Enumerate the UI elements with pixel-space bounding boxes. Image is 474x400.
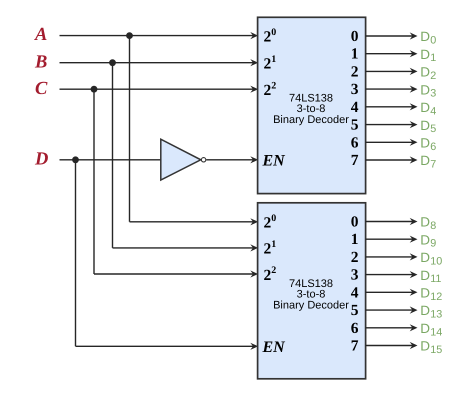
junction node on B	[109, 59, 116, 66]
svg-text:12: 12	[430, 291, 442, 303]
wire U1 output 1 to D1	[366, 50, 418, 57]
svg-text:D: D	[420, 153, 430, 168]
wire D to inverter input	[60, 159, 162, 161]
svg-text:D: D	[420, 250, 430, 265]
svg-text:15: 15	[430, 344, 442, 356]
svg-text:Binary Decoder: Binary Decoder	[273, 114, 349, 126]
output label D7	[420, 153, 436, 170]
output label D3	[420, 82, 436, 99]
U2 value label 74LS138 3-to-8 Binary Decoder	[273, 278, 349, 312]
U1 pin label 2^2	[264, 80, 277, 99]
output label D15	[420, 339, 442, 356]
svg-text:2: 2	[430, 70, 436, 82]
svg-text:7: 7	[430, 159, 436, 171]
wire U2 output 0 to D8	[366, 218, 418, 225]
svg-text:4: 4	[351, 99, 359, 116]
svg-text:D: D	[420, 47, 430, 62]
svg-text:EN: EN	[262, 153, 287, 170]
svg-text:4: 4	[430, 105, 436, 117]
output label D4	[420, 100, 436, 117]
svg-text:D: D	[420, 339, 430, 354]
wire A branch to bottom decoder input 2^0	[130, 36, 259, 226]
wire C to top decoder input 2^2	[60, 86, 259, 93]
wire A to top decoder input 2^0	[60, 32, 259, 39]
wire U1 output 0 to D0	[366, 32, 418, 39]
svg-text:D: D	[420, 303, 430, 318]
svg-text:2: 2	[351, 249, 359, 266]
svg-text:3: 3	[351, 81, 359, 98]
svg-text:0: 0	[271, 27, 276, 38]
wire U1 output 2 to D2	[366, 68, 418, 75]
output label D2	[420, 65, 436, 82]
svg-text:8: 8	[430, 220, 436, 232]
wire U1 output 7 to D7	[366, 156, 418, 163]
inverter (NOT gate) on D	[161, 139, 201, 180]
svg-text:D: D	[420, 321, 430, 336]
svg-text:0: 0	[351, 214, 359, 231]
junction node on D	[72, 156, 79, 163]
svg-text:1: 1	[271, 239, 276, 250]
wire U2 output 6 to D14	[366, 324, 418, 331]
junction node on C	[91, 86, 98, 93]
svg-text:14: 14	[430, 326, 442, 338]
svg-text:1: 1	[351, 46, 359, 63]
output label D5	[420, 118, 436, 135]
wire U1 output 5 to D5	[366, 121, 418, 128]
svg-text:11: 11	[430, 273, 441, 285]
svg-text:Binary Decoder: Binary Decoder	[273, 299, 349, 311]
svg-text:D: D	[420, 82, 430, 97]
output label D0	[420, 29, 436, 46]
svg-text:D: D	[420, 232, 430, 247]
inverter output bubble	[201, 158, 205, 162]
svg-text:D: D	[420, 286, 430, 301]
svg-text:D: D	[420, 100, 430, 115]
wire B branch to bottom decoder input 2^1	[113, 63, 259, 252]
output label D14	[420, 321, 442, 338]
U1 value label 74LS138 3-to-8 Binary Decoder	[273, 92, 349, 126]
svg-text:6: 6	[430, 141, 436, 153]
svg-text:0: 0	[351, 28, 359, 45]
svg-text:1: 1	[271, 54, 276, 65]
svg-text:1: 1	[351, 231, 359, 248]
svg-text:D: D	[420, 65, 430, 80]
svg-text:5: 5	[351, 117, 359, 134]
wire U2 output 5 to D13	[366, 306, 418, 313]
wire U1 output 3 to D3	[366, 86, 418, 93]
svg-text:D: D	[420, 118, 430, 133]
wire U1 output 6 to D6	[366, 139, 418, 146]
svg-text:3: 3	[430, 88, 436, 100]
junction node on A	[126, 32, 133, 39]
U1 pin label 2^1	[264, 54, 277, 73]
svg-text:A: A	[34, 25, 47, 45]
wire U2 output 1 to D9	[366, 236, 418, 243]
svg-text:B: B	[34, 52, 47, 72]
svg-text:EN: EN	[262, 339, 287, 356]
svg-text:7: 7	[351, 338, 359, 355]
U2 pin label 2^0	[264, 213, 277, 232]
output label D10	[420, 250, 442, 267]
74LS138 decoder U2 body	[258, 203, 366, 379]
output label D8	[420, 215, 436, 232]
74LS138 decoder U1 body	[258, 17, 366, 193]
U2 pin label 2^2	[264, 265, 277, 284]
svg-text:1: 1	[430, 52, 436, 64]
wire U2 output 2 to D10	[366, 253, 418, 260]
svg-text:D: D	[420, 29, 430, 44]
svg-text:D: D	[420, 136, 430, 151]
U1 pin label 2^0	[264, 27, 277, 46]
output label D6	[420, 136, 436, 153]
wire B to top decoder input 2^1	[60, 59, 259, 66]
wire D branch to bottom decoder EN	[76, 160, 259, 350]
svg-text:0: 0	[271, 213, 276, 224]
wire U1 output 4 to D4	[366, 103, 418, 110]
wire U2 output 7 to D15	[366, 342, 418, 349]
output label D12	[420, 286, 442, 303]
svg-text:4: 4	[351, 284, 359, 301]
output label D1	[420, 47, 436, 64]
svg-text:2: 2	[271, 265, 276, 276]
svg-text:5: 5	[351, 302, 359, 319]
wire C branch to bottom decoder input 2^2	[94, 89, 258, 277]
output label D11	[420, 268, 441, 285]
svg-text:10: 10	[430, 255, 442, 267]
svg-text:D: D	[34, 149, 48, 169]
svg-text:7: 7	[351, 152, 359, 169]
svg-text:9: 9	[430, 238, 436, 250]
U2 pin label 2^1	[264, 239, 277, 258]
svg-text:2: 2	[351, 63, 359, 80]
svg-text:D: D	[420, 268, 430, 283]
output label D13	[420, 303, 442, 320]
svg-text:0: 0	[430, 35, 436, 47]
svg-text:13: 13	[430, 309, 442, 321]
svg-text:3: 3	[351, 267, 359, 284]
svg-text:6: 6	[351, 320, 359, 337]
svg-text:C: C	[35, 79, 48, 99]
wire inverter output to top decoder EN	[206, 156, 258, 163]
svg-text:2: 2	[271, 80, 276, 91]
wire U2 output 4 to D12	[366, 289, 418, 296]
svg-text:5: 5	[430, 123, 436, 135]
svg-text:6: 6	[351, 134, 359, 151]
svg-text:D: D	[420, 215, 430, 230]
wire U2 output 3 to D11	[366, 271, 418, 278]
output label D9	[420, 232, 436, 249]
